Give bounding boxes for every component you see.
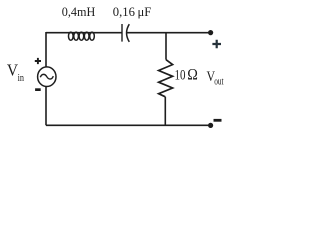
svg-text:out: out <box>214 77 224 88</box>
wire top-left horizontal (source to inductor to capacitor) <box>46 32 122 34</box>
svg-text:in: in <box>18 73 25 84</box>
output polarity plus <box>212 40 221 48</box>
wire left vertical upper (corner to source) <box>45 32 47 67</box>
node bottom output terminal dot <box>208 123 213 128</box>
svg-text:0,16 μF: 0,16 μF <box>113 4 152 19</box>
source polarity minus <box>35 88 41 91</box>
output polarity minus <box>214 119 222 122</box>
wire resistor branch top lead <box>165 33 167 60</box>
svg-text:Ω: Ω <box>187 66 198 83</box>
wire bottom horizontal <box>46 124 211 126</box>
wire resistor branch bottom lead <box>164 97 166 126</box>
resistor R1 10 Ohm zigzag <box>159 60 173 97</box>
svg-text:10: 10 <box>175 67 186 83</box>
source polarity plus <box>35 58 41 64</box>
capacitor C1 0,16uF left plate <box>121 24 123 42</box>
svg-text:0,4mH: 0,4mH <box>62 4 96 19</box>
wire left vertical lower (source to bottom corner) <box>45 86 47 125</box>
source Vin AC symbol circle <box>38 67 56 87</box>
capacitor C1 right curved plate <box>127 24 130 42</box>
node top output terminal dot <box>208 30 213 35</box>
source Vin sine wave <box>40 74 53 79</box>
wire top-right horizontal (capacitor to output terminal) <box>127 32 211 34</box>
inductor L1 0,4mH <box>69 32 95 40</box>
